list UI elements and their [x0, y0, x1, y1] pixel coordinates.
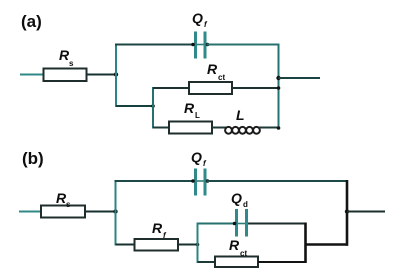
- wire output lead a: [279, 77, 321, 79]
- wire left vertical a: [115, 44, 117, 108]
- svg-text:L: L: [195, 111, 200, 120]
- svg-text:(b): (b): [22, 149, 44, 168]
- wire top branch left b: [115, 180, 194, 182]
- wire Rct branch right b: [258, 261, 307, 263]
- wire Qd branch right b: [248, 223, 307, 225]
- resistor Rct (b): [215, 237, 258, 267]
- wire Rct branch left b: [198, 261, 216, 263]
- node Rf junction b: [196, 243, 200, 247]
- node input junction a: [114, 72, 118, 76]
- svg-text:R: R: [229, 237, 240, 253]
- wire Rs to node b: [85, 211, 116, 213]
- wire Rs to node a: [87, 74, 117, 76]
- resistor Rf (b): [135, 220, 179, 251]
- node output junction a: [276, 76, 280, 80]
- node Rct right junction a: [277, 86, 281, 90]
- svg-text:Q: Q: [191, 149, 202, 165]
- inductor L (a): [225, 107, 260, 134]
- wire top branch right a: [207, 44, 280, 46]
- wire bottom horizontal a: [116, 105, 153, 107]
- svg-text:(a): (a): [21, 12, 42, 31]
- node output junction b: [345, 209, 349, 213]
- wire RL to coil a: [212, 127, 226, 129]
- wire nested vertical a: [152, 87, 154, 129]
- capacitor Qd (b): [231, 190, 248, 237]
- svg-text:s: s: [69, 59, 74, 68]
- node RL right junction a: [277, 126, 281, 130]
- node input junction b: [113, 209, 117, 213]
- wire Rct branch left a: [153, 87, 189, 89]
- wire Rct branch right a: [232, 87, 279, 89]
- capacitor Qf (b): [191, 149, 209, 196]
- wire input lead a: [20, 74, 44, 76]
- svg-text:R: R: [184, 100, 195, 116]
- svg-text:Q: Q: [192, 10, 203, 26]
- wire left vertical b: [115, 180, 117, 246]
- svg-text:s: s: [66, 200, 71, 209]
- wire top branch right b: [207, 180, 349, 182]
- wire output lead b: [347, 211, 385, 213]
- wire Rf branch left b: [116, 244, 135, 246]
- svg-text:R: R: [207, 61, 218, 77]
- wire outer right vertical b: [346, 180, 349, 246]
- capacitor Qf (a): [191, 10, 209, 59]
- wire right vertical a: [278, 44, 280, 129]
- wire coil to right vertical a: [259, 127, 279, 129]
- svg-text:ct: ct: [218, 73, 225, 82]
- svg-text:ct: ct: [240, 249, 247, 258]
- wire Qd branch left b: [198, 223, 236, 225]
- wire input lead b: [19, 211, 41, 213]
- svg-text:R: R: [152, 220, 163, 236]
- wire top branch left a: [115, 44, 194, 46]
- node mid junction a: [151, 104, 155, 108]
- resistor Rs (b): [41, 190, 85, 218]
- svg-text:L: L: [236, 107, 245, 123]
- resistor RL (a): [169, 100, 212, 134]
- wire nested left vertical b: [197, 223, 199, 264]
- resistor Rct (a): [189, 61, 232, 94]
- wire Rf to nested parallel b: [178, 244, 199, 246]
- wire nested to outer connector b: [306, 243, 349, 246]
- svg-text:Q: Q: [231, 190, 242, 206]
- svg-text:d: d: [243, 200, 248, 209]
- resistor Rs (a): [44, 47, 87, 81]
- wire RL branch left a: [153, 127, 169, 129]
- wire nested right vertical b: [304, 223, 307, 264]
